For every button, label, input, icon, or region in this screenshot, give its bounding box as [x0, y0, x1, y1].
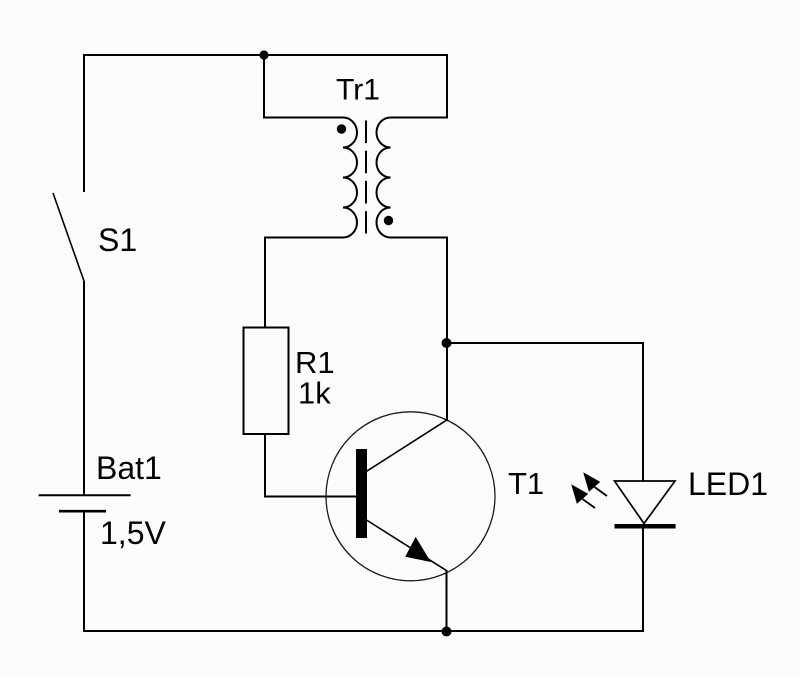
node collector junction [442, 338, 452, 348]
svg-text:1,5V: 1,5V [100, 515, 166, 551]
LED1 triangle (anode) [615, 481, 676, 524]
svg-text:1k: 1k [298, 376, 331, 411]
wire right winding bottom to collector rail [391, 238, 448, 421]
svg-text:S1: S1 [98, 222, 137, 258]
wire resistor to base [265, 434, 356, 497]
transformer Tr1 secondary winding (right) [377, 118, 391, 238]
wire switch to battery [83, 281, 85, 495]
LED1 cathode bar [615, 524, 676, 529]
switch S1 blade [53, 193, 84, 281]
node junction top (battery to windings) [259, 50, 268, 59]
transformer phase dot right [384, 216, 393, 225]
wire left winding bottom to resistor [265, 238, 343, 328]
wire LED to bottom rail [642, 526, 644, 631]
wire battery to bottom rail [83, 511, 85, 631]
battery Bat1 short plate [59, 510, 106, 513]
svg-text:LED1: LED1 [688, 466, 768, 502]
transformer Tr1 primary winding (left) [343, 118, 357, 238]
wire collector junction to LED [447, 343, 643, 481]
node emitter junction bottom [442, 627, 452, 637]
transformer Tr1 core dashed line [365, 121, 367, 234]
wire transformer left top connection [264, 55, 343, 118]
LED1 emission arrow upper [583, 472, 607, 496]
wire transformer right top connection [391, 54, 448, 118]
transformer phase dot left [337, 124, 346, 133]
svg-text:T1: T1 [508, 466, 544, 501]
wire emitter to bottom rail [446, 570, 448, 631]
wire left vertical to switch [83, 54, 85, 192]
wire bottom rail [83, 630, 644, 632]
svg-text:Tr1: Tr1 [336, 74, 380, 107]
battery Bat1 long plate [39, 494, 131, 496]
transistor T1 collector line [367, 419, 448, 471]
svg-text:Bat1: Bat1 [96, 450, 162, 486]
transistor T1 circle [326, 412, 495, 581]
transistor T1 emitter line [367, 520, 447, 570]
transistor T1 emitter arrow head [405, 537, 431, 562]
LED1 emission arrow lower [571, 484, 595, 508]
transistor T1 base bar [356, 449, 367, 538]
wire top rail [84, 54, 447, 56]
resistor R1 body [244, 328, 289, 435]
